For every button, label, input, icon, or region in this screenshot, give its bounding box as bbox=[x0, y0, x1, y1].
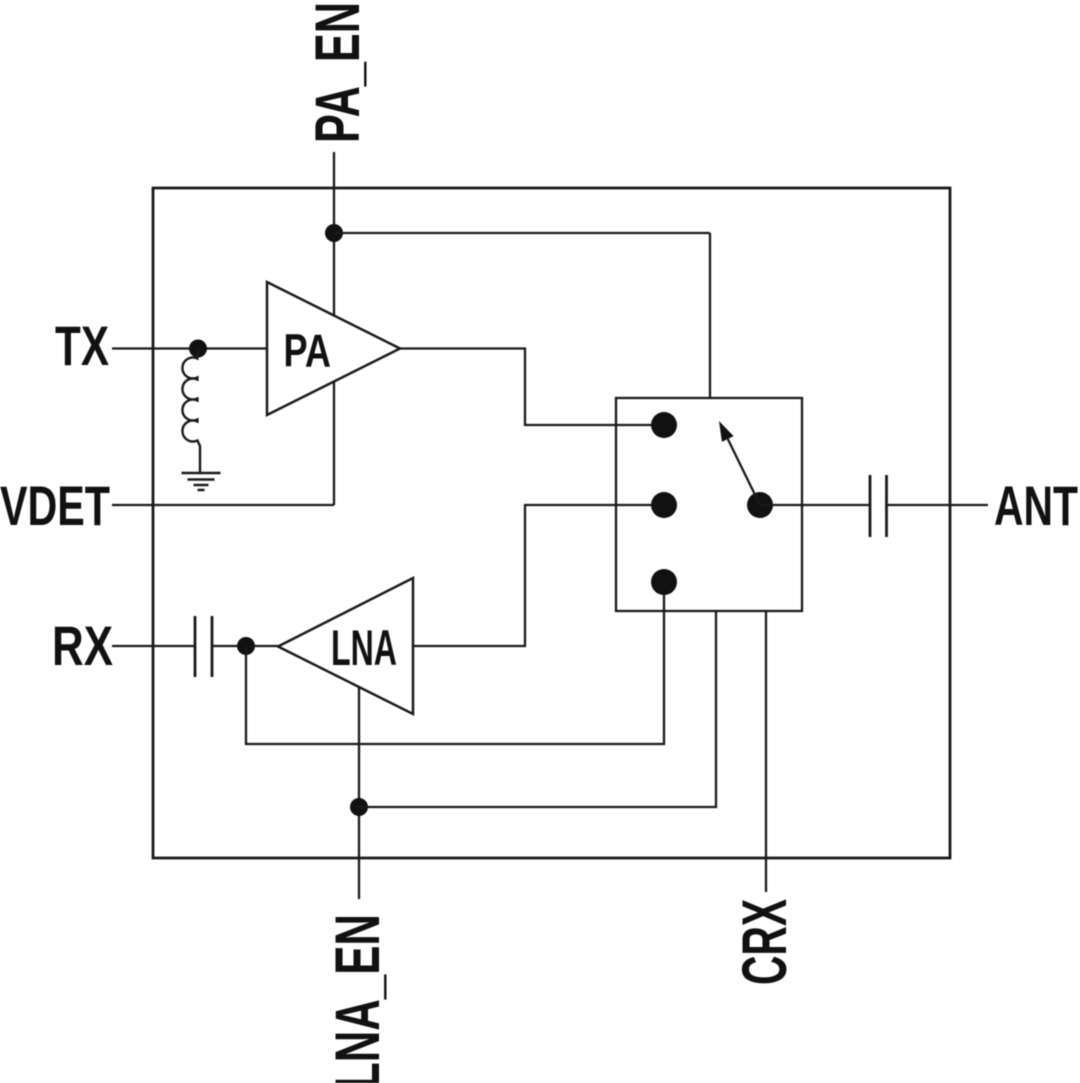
ground symbol bbox=[182, 473, 221, 490]
switch arm with arrow bbox=[728, 439, 760, 505]
svg-text:TX: TX bbox=[55, 315, 109, 377]
node switch throw 2 bbox=[651, 492, 677, 518]
wire TX input bbox=[112, 347, 267, 349]
svg-text:CRX: CRX bbox=[730, 899, 800, 985]
wire RX lead bbox=[112, 645, 195, 647]
wire CRX vertical bbox=[765, 611, 767, 892]
wire VDET input bbox=[112, 504, 334, 506]
wire LNA input from switch bbox=[413, 505, 664, 646]
node RX junction bbox=[237, 637, 255, 655]
node PA_EN junction bbox=[325, 224, 343, 242]
wire LNA_EN vertical bbox=[358, 687, 360, 899]
node switch throw 1 bbox=[651, 412, 677, 438]
svg-text:PA: PA bbox=[284, 325, 332, 377]
node TX junction bbox=[189, 340, 207, 358]
wire PA_EN to switch horizontal bbox=[334, 232, 710, 234]
wire switch common to ANT cap bbox=[760, 504, 870, 506]
node switch throw 3 bbox=[651, 569, 677, 595]
wire PA output bbox=[400, 349, 664, 426]
node switch common pole bbox=[747, 492, 773, 518]
wire VDET up to PA bottom bbox=[333, 381, 335, 505]
wire LNA_EN branch to switch box bbox=[359, 611, 716, 807]
op-amp LNA triangle bbox=[278, 578, 413, 714]
capacitor C1 (RX dc block) bbox=[195, 616, 212, 677]
svg-text:VDET: VDET bbox=[0, 475, 110, 537]
svg-text:ANT: ANT bbox=[994, 475, 1078, 537]
inductor L1 (shunt to ground) bbox=[182, 349, 200, 473]
svg-text:RX: RX bbox=[52, 615, 113, 677]
wire down to switch box top bbox=[709, 233, 711, 398]
svg-text:LNA_EN: LNA_EN bbox=[323, 914, 393, 1083]
wire cap to ANT pin bbox=[887, 504, 989, 506]
IC outer boundary box bbox=[153, 188, 950, 858]
switch box bbox=[616, 398, 802, 611]
wire cap to LNA output bbox=[212, 645, 278, 647]
capacitor C2 (ANT dc block) bbox=[870, 475, 887, 537]
op-amp PA triangle bbox=[267, 282, 400, 415]
wire PA_EN vertical lead bbox=[333, 152, 335, 316]
wire bypass RX to switch bottom throw bbox=[246, 582, 664, 744]
svg-text:LNA: LNA bbox=[331, 620, 397, 676]
svg-text:PA_EN: PA_EN bbox=[303, 2, 373, 143]
node LNA_EN junction bbox=[350, 798, 368, 816]
